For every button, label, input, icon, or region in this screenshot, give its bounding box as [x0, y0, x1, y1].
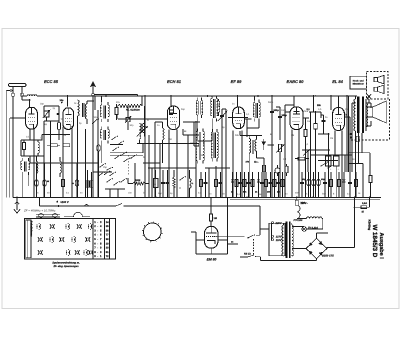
wire [271, 122, 273, 197]
resistor R41 [285, 166, 288, 173]
socket symbol r3-1 [38, 250, 39, 254]
capacitor C42 [278, 172, 280, 197]
svg-text:100p: 100p [281, 109, 287, 112]
wire [105, 188, 125, 190]
svg-text:Hoch- und: Hoch- und [353, 79, 364, 82]
coil L7 [219, 101, 220, 112]
wire [139, 123, 141, 125]
trimmer arrows [218, 111, 227, 121]
socket symbol r3-4 [87, 250, 88, 254]
resistor R32 [282, 172, 284, 197]
junction dots on bus [67, 95, 69, 97]
svg-text:250k: 250k [303, 110, 309, 113]
wire [148, 167, 196, 169]
capacitor C38 [240, 172, 242, 197]
capacitor C41 [270, 172, 272, 197]
wire [338, 96, 340, 107]
antenna lead left [12, 87, 14, 94]
capacitor C40 [261, 172, 263, 197]
wire [237, 96, 239, 107]
bridge rectifier [306, 238, 327, 259]
svg-text:B250 C75: B250 C75 [322, 255, 334, 258]
mech link dashed [253, 239, 255, 255]
svg-text:2M: 2M [291, 134, 294, 137]
wire HT bus [22, 95, 27, 97]
tube EABC80 [290, 107, 303, 130]
coil L12 [37, 162, 38, 174]
capacitor C34 [162, 170, 164, 197]
svg-text:1M: 1M [283, 158, 286, 161]
wire [29, 100, 31, 107]
socket symbol r3-5 [89, 250, 90, 254]
capacitor C30 [36, 163, 38, 197]
output transformer core [357, 97, 359, 134]
resistor R28 [244, 172, 246, 197]
wire [285, 111, 290, 113]
capacitor C21 [278, 116, 282, 118]
wire [292, 226, 304, 228]
chassis box sidebar [26, 220, 31, 258]
pot R39 [275, 168, 280, 173]
wire [367, 206, 370, 208]
wire [316, 259, 318, 261]
svg-text:Ausgabe I: Ausgabe I [378, 233, 384, 260]
chassis box [25, 219, 116, 259]
electrolytic C28 [334, 156, 340, 166]
FM coil L4 [140, 124, 142, 133]
diode D1 [232, 172, 234, 197]
wire [23, 140, 25, 143]
electrolytic C44 [308, 172, 310, 197]
IF2 lower coil L11 [211, 132, 212, 158]
svg-text:Körting: Körting [367, 220, 371, 231]
speaker label box [350, 76, 366, 89]
diode plates [294, 111, 300, 113]
resistor R4 [115, 108, 118, 115]
socket symbol r1-3 [69, 224, 70, 228]
mains transformer primary [282, 225, 284, 256]
capacitor C31 [44, 163, 46, 197]
EM80 frame [195, 240, 197, 254]
socket symbol r2-4 [75, 237, 76, 241]
svg-text:m: m [147, 119, 149, 122]
IF transformer T1 [100, 105, 101, 117]
resistor R31 [274, 172, 276, 197]
wire [323, 130, 325, 134]
svg-text:≈100 V: ≈100 V [60, 201, 69, 204]
volume pot R12 [279, 144, 282, 152]
pot arrow [303, 150, 309, 157]
capacitor C20 [270, 111, 274, 113]
wire [183, 134, 199, 136]
tweeter speaker 2 [374, 87, 378, 91]
resistor R3 [23, 143, 26, 150]
wire [77, 116, 79, 197]
wire antenna ground [9, 118, 11, 197]
ground bus [13, 197, 381, 199]
wire [42, 134, 70, 136]
resistor R27 [236, 172, 238, 197]
resistor R23 zigzag [133, 182, 145, 185]
electrolytic C45 [313, 172, 315, 197]
socket symbol r1-2 [50, 224, 51, 228]
coil L8 [190, 179, 192, 189]
antenna [9, 83, 27, 86]
svg-text:127V: 127V [276, 235, 282, 238]
crossover X [367, 94, 371, 99]
AM osc coil L10 [196, 132, 197, 161]
coupling cap C25 [314, 124, 317, 130]
tone cap C26 [322, 120, 326, 122]
wire tuner box top [94, 94, 137, 96]
svg-text:1M: 1M [330, 137, 333, 140]
tube EM80 [205, 226, 218, 248]
wire [245, 118, 252, 120]
voltage selector [271, 222, 273, 240]
resistor R26 [215, 166, 217, 197]
variable arrow [137, 127, 148, 137]
tube EF89 [233, 107, 245, 129]
svg-text:220V~: 220V~ [300, 202, 309, 205]
wire mains line [107, 205, 116, 207]
bus junction dots [33, 197, 35, 199]
capacitor C32 [76, 163, 78, 197]
wire [195, 232, 197, 240]
switch S4 [179, 179, 180, 180]
tube ECH81 [167, 106, 179, 129]
wire [292, 248, 306, 250]
antenna lead right [21, 87, 23, 94]
socket symbol r2-3 [60, 237, 61, 241]
socket symbol r2-2 [53, 237, 54, 241]
resistor R7 [63, 144, 70, 147]
svg-text:10p: 10p [60, 99, 65, 102]
wire [110, 144, 123, 146]
socket symbol r3-3 [75, 250, 76, 254]
heater choke [307, 217, 323, 219]
wire [162, 122, 164, 128]
capacitor C36 [205, 172, 207, 197]
svg-text:0,8A: 0,8A [362, 202, 367, 205]
resistor R34 [330, 172, 332, 197]
capacitor C35 [167, 170, 169, 197]
electrolytic C27 [326, 156, 332, 166]
resistor R35 [338, 172, 340, 197]
junction blob [57, 113, 60, 115]
NTC resistor [296, 197, 298, 200]
coil L3 [38, 142, 39, 153]
rectifier feed [354, 197, 356, 207]
wire [335, 154, 352, 156]
resistor R29 [252, 172, 254, 197]
resistor R30 [265, 172, 267, 197]
resistor R40 [210, 214, 213, 221]
output transformer secondary [365, 99, 367, 131]
resistor R5 zigzag [118, 104, 142, 107]
resistor R36 [355, 172, 357, 197]
capacitor C48 [349, 172, 351, 197]
mech link dashed [128, 155, 130, 176]
wire [145, 118, 168, 120]
socket symbol r1-5 [91, 224, 92, 228]
FM coil L2 [78, 100, 80, 116]
socket symbol r3-2 [69, 250, 70, 254]
main speaker [366, 107, 373, 117]
trimmer C2 [44, 111, 49, 117]
socket symbol r1-4 [77, 224, 78, 228]
dial cord pulleys [39, 213, 43, 217]
wire [303, 117, 309, 119]
ground symbol [16, 196, 18, 198]
resistor R38 [263, 165, 266, 172]
wire [310, 154, 345, 156]
svg-text:500p: 500p [274, 109, 280, 112]
socket symbol r2-5 [86, 237, 87, 241]
electrolytic C46 [318, 172, 320, 197]
svg-text:500k: 500k [135, 179, 141, 182]
wire [307, 228, 323, 230]
resistor R6 [51, 144, 58, 147]
tuning capacitor ticks [161, 232, 163, 234]
svg-text:500p: 500p [268, 101, 274, 104]
RF choke L1 [27, 95, 37, 96]
switch S5 [99, 166, 100, 167]
IF transformer T3 [253, 103, 254, 118]
coil L6 [163, 128, 165, 140]
wire [170, 96, 172, 106]
band switch S2 [114, 158, 115, 159]
resistor R2 [58, 123, 61, 130]
wire earth lead [5, 91, 7, 198]
wire [44, 105, 59, 107]
wire [302, 149, 330, 151]
wire [97, 110, 99, 197]
wire [309, 111, 321, 113]
wire [248, 153, 250, 197]
band switch S1 [111, 139, 112, 140]
svg-text:ZF- eing. Spannungen: ZF- eing. Spannungen [52, 265, 79, 268]
wire [327, 247, 355, 249]
wire [29, 129, 31, 140]
wire [148, 135, 150, 197]
svg-text:100p: 100p [282, 114, 288, 117]
wire [21, 175, 23, 197]
mains transformer secondary [292, 225, 294, 256]
mains transformer core [286, 222, 288, 258]
mains switch NS [240, 256, 248, 258]
wire [330, 96, 332, 110]
wire [346, 96, 348, 172]
wire [355, 140, 357, 198]
IF transformer T2 [196, 101, 197, 116]
wire [67, 96, 69, 107]
diode D4 [262, 142, 265, 145]
socket symbol r2-1 [38, 237, 39, 241]
surge choke [297, 205, 300, 218]
wire [134, 163, 136, 197]
ratio detector L9 [240, 135, 262, 137]
wire [293, 96, 295, 107]
AM input transformer T5 [21, 161, 22, 170]
svg-text:Si: Si [362, 210, 365, 213]
trimmer C6 [126, 117, 130, 121]
dial lamp [302, 227, 307, 232]
speaker dashed frame [389, 99, 391, 140]
FM dipole antenna [92, 84, 94, 93]
wire [137, 143, 199, 145]
wire [254, 96, 256, 101]
wire [348, 152, 370, 154]
wire [159, 143, 161, 163]
svg-text:Mitteltöner: Mitteltöner [353, 83, 364, 86]
svg-text:NS 1b: NS 1b [244, 253, 251, 256]
wire speaker feed [366, 102, 371, 104]
wire [365, 102, 367, 104]
resistor R20 [62, 163, 64, 197]
wire [310, 112, 312, 197]
tweeter box dashed [367, 72, 389, 100]
pot shaft dashed link [279, 158, 281, 176]
tube EL84 [333, 108, 345, 131]
switch contacts [98, 175, 99, 176]
bridge diodes [309, 243, 312, 246]
svg-text:ZF = 468kHz + 10,7MHz: ZF = 468kHz + 10,7MHz [23, 209, 56, 213]
wire [210, 198, 212, 215]
wire [221, 125, 223, 197]
wire [117, 106, 119, 119]
chassis divider [92, 219, 94, 259]
svg-text:EM 80: EM 80 [207, 258, 217, 262]
wire [348, 96, 350, 172]
wire [354, 208, 356, 248]
output transformer primary [354, 99, 356, 131]
wire [279, 152, 281, 198]
socket symbol r1-1 [40, 224, 41, 228]
electrolytic C33 [154, 179, 159, 188]
bus label [56, 201, 58, 203]
svg-text:1M: 1M [214, 217, 217, 220]
resistor R37 [369, 153, 371, 176]
junction dots [305, 117, 307, 119]
coil L5 [140, 131, 141, 139]
resistor R22 [91, 172, 93, 197]
svg-text:W 1845/3 D: W 1845/3 D [371, 225, 378, 258]
primary box [269, 223, 285, 256]
diode D3 [343, 172, 345, 197]
svg-text:PTC100: PTC100 [294, 219, 303, 222]
wire [37, 140, 39, 142]
capacitor C43 [301, 172, 303, 197]
resistor R42 [298, 157, 305, 160]
wire [85, 129, 87, 197]
switch S0 [92, 123, 93, 124]
svg-text:ECH 81: ECH 81 [167, 79, 182, 84]
resistor R21 [87, 170, 89, 197]
coil L13 [60, 162, 61, 174]
svg-text:EF 89: EF 89 [231, 79, 242, 84]
capacitor C37 [220, 172, 222, 197]
wire [211, 96, 213, 98]
fuse [361, 206, 367, 209]
wire mains switch [213, 236, 245, 238]
diode D2 [258, 172, 260, 197]
wire [344, 116, 350, 118]
tuning capacitor [144, 223, 162, 241]
switch S3 [106, 181, 107, 182]
svg-text:EL 84: EL 84 [332, 79, 343, 84]
tube ECC85 triode b [63, 108, 74, 130]
ground bus 1b [230, 199, 380, 201]
svg-text:EABC 80: EABC 80 [287, 79, 305, 84]
switch S6 [320, 165, 321, 166]
capacitor C47 [324, 172, 326, 197]
capacitor C39 [248, 172, 250, 197]
resistor R24 zig [173, 177, 176, 187]
ground bus 2 [39, 205, 107, 207]
wire [195, 122, 197, 197]
tweeter speaker 1 [374, 78, 378, 82]
IF transformer T1b [100, 130, 101, 139]
svg-text:ECC 85: ECC 85 [44, 79, 59, 84]
resistor R25 [200, 172, 202, 197]
wire [210, 221, 212, 227]
wire [58, 106, 60, 123]
resistor R14 [304, 130, 307, 137]
wire [227, 197, 229, 240]
svg-text:Schaltebene: Schaltebene [30, 221, 33, 237]
wire [205, 167, 230, 169]
wire [127, 106, 129, 117]
tube ECC85 triode a [26, 107, 38, 129]
wire [101, 96, 103, 102]
svg-text:110V: 110V [276, 239, 282, 242]
